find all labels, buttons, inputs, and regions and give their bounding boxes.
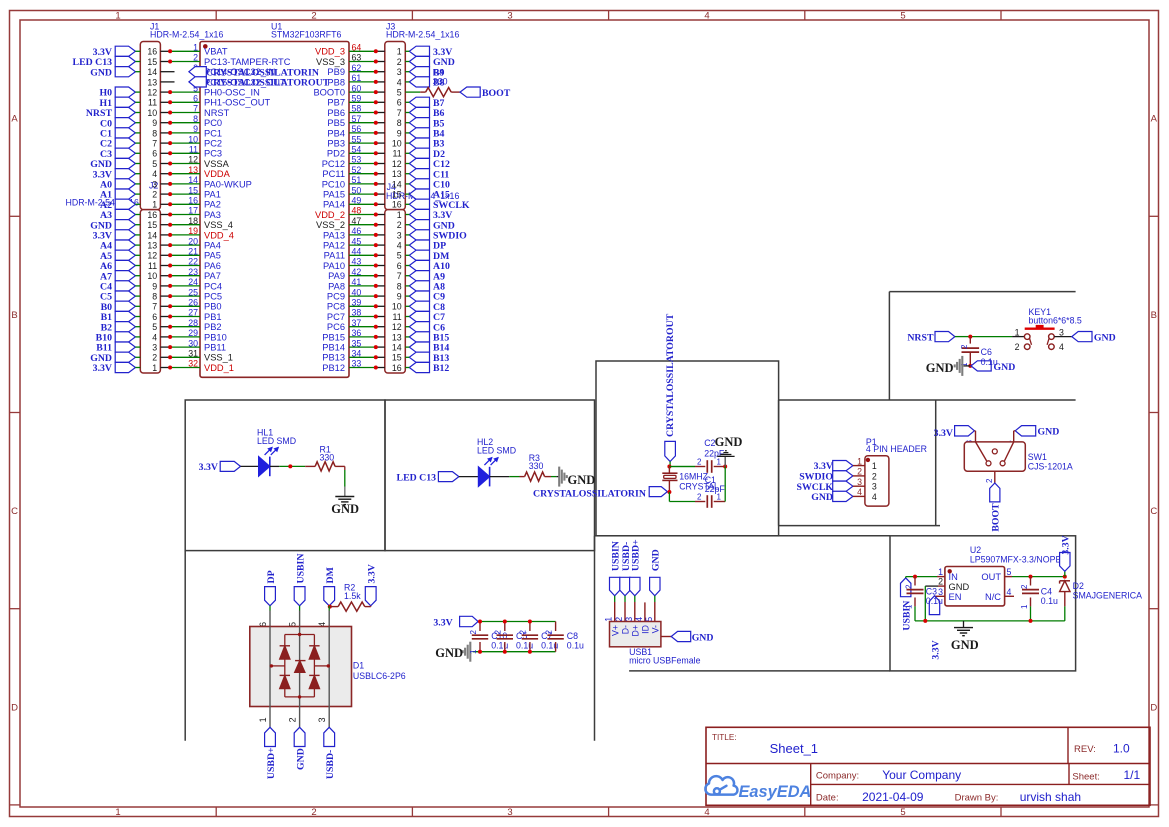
- svg-text:4 PIN HEADER: 4 PIN HEADER: [866, 444, 927, 454]
- svg-text:1.0: 1.0: [1113, 742, 1130, 756]
- svg-text:3: 3: [397, 67, 402, 77]
- svg-text:12: 12: [392, 159, 402, 169]
- svg-text:15: 15: [147, 57, 157, 67]
- wire J2 pin 9 to U1 pin 24 with junction: [160, 285, 170, 287]
- svg-text:2: 2: [152, 353, 157, 363]
- wire J2 pin 3 to U1 pin 30 with junction: [160, 346, 170, 348]
- node B junction: [667, 490, 671, 494]
- partition box HL2 area: [385, 400, 595, 551]
- wire U1 pin 39 to J4 pin 10 with junction: [349, 305, 376, 307]
- wire NRST to KEY1: [955, 336, 970, 338]
- svg-text:3: 3: [507, 10, 512, 21]
- svg-text:13: 13: [147, 77, 157, 87]
- svg-text:6: 6: [397, 261, 402, 271]
- svg-text:1: 1: [857, 456, 862, 466]
- wire 3.3V rail (top): [478, 621, 555, 623]
- svg-text:PA7: PA7: [204, 271, 221, 281]
- svg-text:5: 5: [152, 322, 157, 332]
- svg-text:1: 1: [1020, 604, 1029, 609]
- net flag B15 at J4 pin 13: [409, 332, 429, 342]
- svg-text:USBD+: USBD+: [266, 747, 277, 779]
- svg-text:PB0: PB0: [204, 302, 222, 312]
- D1 internal diodes: [269, 627, 271, 707]
- svg-text:3.3V: 3.3V: [93, 363, 112, 374]
- wire HL1 cathode to junction: [270, 465, 279, 467]
- svg-text:2: 2: [397, 57, 402, 67]
- svg-text:GND: GND: [715, 435, 743, 449]
- svg-text:V-: V-: [650, 625, 660, 633]
- LED HL1 LED SMD: [259, 457, 270, 477]
- svg-text:GND: GND: [811, 492, 833, 503]
- wire DP down to D1 pin 6: [269, 606, 271, 611]
- junction NRST-C6: [968, 335, 972, 339]
- svg-text:1: 1: [152, 363, 157, 373]
- ground (KEY1, gray): [964, 365, 971, 367]
- svg-text:PA14: PA14: [323, 200, 345, 210]
- svg-text:2: 2: [544, 629, 553, 634]
- svg-text:1: 1: [115, 807, 120, 818]
- wire 3.3V to SW1 pin 3: [974, 430, 975, 432]
- svg-text:Sheet_1: Sheet_1: [770, 741, 818, 756]
- net flag GND (KEY1 right): [1072, 332, 1092, 342]
- svg-text:12: 12: [147, 88, 157, 98]
- svg-text:GND: GND: [692, 632, 714, 643]
- svg-text:17: 17: [188, 206, 198, 216]
- svg-text:4: 4: [704, 807, 709, 818]
- net flag 3.3V (EN, vertical): [929, 596, 939, 615]
- svg-text:STM32F103RFT6: STM32F103RFT6: [271, 30, 342, 40]
- svg-text:LED C13: LED C13: [397, 472, 437, 483]
- svg-text:LP5907MFX-3.3/NOPB: LP5907MFX-3.3/NOPB: [970, 555, 1062, 565]
- svg-text:16: 16: [147, 47, 157, 57]
- svg-text:29: 29: [188, 328, 198, 338]
- wire J1 pin 10 to U1 pin 7 with junction: [160, 112, 170, 114]
- svg-text:PA0-WKUP: PA0-WKUP: [204, 179, 252, 189]
- wire J1 pin 16 to U1 pin 1 with junction: [160, 50, 170, 52]
- svg-text:9: 9: [397, 292, 402, 302]
- svg-text:PA1: PA1: [204, 190, 221, 200]
- svg-text:VSS_1: VSS_1: [204, 353, 233, 363]
- net flag C7 at J4 pin 11: [409, 311, 429, 321]
- wire J2 pin 10 to U1 pin 23 with junction: [160, 275, 170, 277]
- junction C6-GND: [968, 364, 972, 368]
- svg-text:12: 12: [147, 251, 157, 261]
- svg-text:SMAJGENERICA: SMAJGENERICA: [1073, 591, 1143, 601]
- svg-text:2: 2: [494, 629, 503, 634]
- svg-text:6: 6: [193, 94, 198, 104]
- svg-text:C6: C6: [981, 347, 992, 357]
- svg-text:2: 2: [872, 471, 877, 481]
- wire U1 pin 56 to J3 pin 9 with junction: [349, 132, 376, 134]
- wire D1 pin 1 to USBD+: [269, 707, 271, 728]
- svg-text:GND: GND: [331, 502, 359, 516]
- svg-text:3: 3: [872, 482, 877, 492]
- svg-text:2: 2: [311, 10, 316, 21]
- svg-text:22pF: 22pF: [705, 484, 726, 494]
- net flag 3.3V at J3 pin 1: [409, 46, 429, 56]
- svg-text:10: 10: [392, 302, 402, 312]
- wire J1 pin 2 to U1 pin 15 with junction: [160, 193, 170, 195]
- svg-text:9: 9: [397, 128, 402, 138]
- svg-text:PC1: PC1: [204, 128, 222, 138]
- svg-text:GND: GND: [296, 748, 307, 770]
- net flag B5 at J3 pin 8: [409, 118, 429, 128]
- wire U1 pin 55 to J3 pin 10 with junction: [349, 142, 376, 144]
- svg-text:3.3V: 3.3V: [367, 564, 378, 583]
- wire U1 pin 53 to J3 pin 12 with junction: [349, 163, 376, 165]
- net flag GND (SW1): [1015, 426, 1035, 436]
- svg-text:GND: GND: [568, 473, 596, 487]
- svg-text:3: 3: [1059, 327, 1064, 337]
- wire J2 pin 13 to U1 pin 20 with junction: [160, 244, 170, 246]
- svg-text:2: 2: [519, 629, 528, 634]
- svg-text:2: 2: [938, 577, 943, 587]
- wire U1 pin 54 to J3 pin 11 with junction: [349, 152, 376, 154]
- svg-text:DP: DP: [266, 570, 277, 583]
- svg-text:PA5: PA5: [204, 251, 221, 261]
- svg-text:2: 2: [857, 467, 862, 477]
- wire U1 pin 59 to J3 pin 6 with junction: [349, 101, 376, 103]
- wire HL2 cathode to R3: [490, 476, 510, 478]
- net flag BOOT (vertical): [990, 483, 1000, 502]
- connector J1 HDR-M-2.54_1x16: [140, 42, 160, 210]
- svg-text:13: 13: [147, 241, 157, 251]
- wire U1 pin 52 to J3 pin 13 with junction: [349, 173, 376, 175]
- wire J2 pin 7 to U1 pin 26 with junction: [160, 305, 170, 307]
- svg-text:25: 25: [188, 287, 198, 297]
- svg-text:16: 16: [392, 363, 402, 373]
- svg-text:PH0-OSC_IN: PH0-OSC_IN: [204, 88, 260, 98]
- svg-text:13: 13: [392, 332, 402, 342]
- capacitor C10 0.1u: [479, 622, 481, 632]
- svg-text:B: B: [1151, 310, 1157, 321]
- svg-text:PA12: PA12: [323, 241, 345, 251]
- net flag C9 at J4 pin 9: [409, 291, 429, 301]
- svg-text:PC10: PC10: [322, 179, 345, 189]
- svg-text:Your Company: Your Company: [882, 768, 961, 782]
- svg-text:PA3: PA3: [204, 210, 221, 220]
- svg-text:PA13: PA13: [323, 230, 345, 240]
- svg-text:VBAT: VBAT: [204, 47, 228, 57]
- svg-text:C4: C4: [1041, 586, 1052, 596]
- wire J2 pin 14 to U1 pin 19 with junction: [160, 234, 170, 236]
- svg-text:Company:: Company:: [816, 771, 859, 782]
- svg-text:PC0: PC0: [204, 118, 222, 128]
- capacitor C8 0.1u: [555, 622, 557, 632]
- net flag GND at J3 pin 2: [409, 56, 429, 66]
- svg-text:GND: GND: [926, 361, 954, 375]
- svg-text:4: 4: [397, 241, 402, 251]
- wire stub J1 pin 13 (unconnected): [160, 81, 174, 83]
- junction D2 top: [1063, 575, 1067, 579]
- net flag 3.3V (U2 out, vertical): [1060, 553, 1070, 572]
- wire U2 OUT to 3.3V rail: [1005, 576, 1012, 578]
- connector J4 HDR-M-2.54_1x16: [385, 210, 406, 373]
- svg-text:USBD-: USBD-: [325, 750, 336, 779]
- wire U1 pin 45 to J4 pin 4 with junction: [349, 244, 376, 246]
- svg-text:PB12: PB12: [322, 363, 345, 373]
- svg-text:7: 7: [193, 104, 198, 114]
- wire U1 pin 40 to J4 pin 9 with junction: [349, 295, 376, 297]
- wire USBIN to U2 IN: [905, 577, 907, 578]
- wire U1 pin 49 to J3 pin 16 with junction: [349, 203, 376, 205]
- partition line bottom-left vertical: [184, 551, 186, 741]
- svg-text:CRYSTALOSSILATOROUT: CRYSTALOSSILATOROUT: [665, 313, 676, 437]
- svg-text:8: 8: [152, 292, 157, 302]
- wire U1 pin 48 to J4 pin 1 with junction: [349, 214, 376, 216]
- svg-text:PC7: PC7: [327, 312, 345, 322]
- svg-text:USBLC6-2P6: USBLC6-2P6: [353, 671, 406, 681]
- wire LED C13 to HL2 anode: [459, 476, 479, 478]
- svg-text:PB5: PB5: [327, 118, 345, 128]
- svg-text:2: 2: [311, 807, 316, 818]
- svg-text:12: 12: [188, 155, 198, 165]
- net flag A8 at J4 pin 8: [409, 281, 429, 291]
- svg-text:1: 1: [904, 604, 913, 609]
- svg-text:2: 2: [697, 457, 702, 466]
- svg-text:PC2: PC2: [204, 139, 222, 149]
- svg-text:D1: D1: [353, 660, 364, 670]
- svg-text:2: 2: [960, 344, 969, 349]
- svg-text:14: 14: [147, 230, 157, 240]
- wire J1 pin 9 to U1 pin 8 with junction: [160, 122, 170, 124]
- svg-text:4: 4: [704, 10, 709, 21]
- diode array D1 USBLC6-2P6: [250, 627, 352, 707]
- svg-text:5: 5: [900, 807, 905, 818]
- wire R3 to ground: [551, 476, 556, 478]
- wire DM down to D1 pin 4: [328, 606, 330, 611]
- svg-text:330: 330: [433, 76, 448, 86]
- capacitor C5 0.1u: [504, 622, 506, 632]
- net flag 3.3V at J4 pin 1: [409, 209, 429, 219]
- svg-text:U2: U2: [970, 545, 981, 555]
- svg-text:2: 2: [1020, 584, 1029, 589]
- svg-text:20: 20: [188, 236, 198, 246]
- svg-text:8: 8: [152, 128, 157, 138]
- net flag B9 at J3 pin 3: [409, 67, 429, 77]
- svg-text:2: 2: [697, 492, 702, 501]
- svg-text:0.1u: 0.1u: [516, 641, 533, 651]
- net flag DM at J4 pin 5: [409, 250, 429, 260]
- connector USB1 micro USBFemale: [610, 622, 661, 647]
- svg-text:PC13-TAMPER-RTC: PC13-TAMPER-RTC: [204, 57, 291, 67]
- svg-text:PB9: PB9: [327, 67, 345, 77]
- junction C3 top: [913, 575, 917, 579]
- svg-text:7: 7: [152, 302, 157, 312]
- svg-text:GND: GND: [90, 67, 112, 78]
- svg-text:N/C: N/C: [985, 592, 1001, 602]
- svg-text:NRST: NRST: [907, 332, 934, 343]
- svg-text:13: 13: [392, 169, 402, 179]
- svg-text:2: 2: [288, 717, 298, 722]
- svg-text:GND: GND: [435, 646, 463, 660]
- op-amp U1 STM32F103RFT6 body: [200, 42, 349, 378]
- svg-text:PC11: PC11: [322, 169, 345, 179]
- svg-text:LED SMD: LED SMD: [257, 436, 296, 446]
- U1 pin 1 marker dot: [203, 44, 208, 49]
- wire U1 pin 51 to J3 pin 14 with junction: [349, 183, 376, 185]
- wire U1 pin 36 to J4 pin 13 with junction: [349, 336, 376, 338]
- svg-text:USBIN: USBIN: [296, 554, 307, 584]
- wire U2 GND pin to rail: [938, 585, 945, 587]
- svg-text:DM: DM: [325, 567, 336, 583]
- net flag A15 at J3 pin 15: [409, 189, 429, 199]
- svg-text:OUT: OUT: [981, 572, 1001, 582]
- wire J1 pin 4 to U1 pin 13 with junction: [160, 173, 170, 175]
- svg-text:10: 10: [392, 139, 402, 149]
- svg-text:PC9: PC9: [327, 292, 345, 302]
- svg-text:VSS_4: VSS_4: [204, 220, 233, 230]
- wire U1 pin 35 to J4 pin 14 with junction: [349, 346, 376, 348]
- wire stub J1 pin 14 (unconnected): [160, 71, 174, 73]
- junction right top: [723, 465, 727, 469]
- svg-text:2: 2: [152, 190, 157, 200]
- net flag B8 at J3 pin 4: [409, 77, 429, 87]
- svg-text:1: 1: [115, 10, 120, 21]
- svg-text:14: 14: [147, 67, 157, 77]
- net flag B7 at J3 pin 6: [409, 97, 429, 107]
- svg-text:10: 10: [188, 134, 198, 144]
- svg-text:8: 8: [397, 118, 402, 128]
- connector J2 HDR-M-2.54_1x16: [140, 210, 160, 373]
- svg-text:HDR-M-2.54_1x16: HDR-M-2.54_1x16: [386, 30, 459, 40]
- svg-text:3.3V: 3.3V: [1061, 535, 1072, 554]
- svg-text:4: 4: [857, 487, 862, 497]
- svg-text:IN: IN: [949, 572, 958, 582]
- svg-text:26: 26: [188, 298, 198, 308]
- svg-text:1: 1: [938, 567, 943, 577]
- wire U1 pin 60 to J3 pin 5 with junction: [349, 91, 376, 93]
- wire J1 pin 12 to U1 pin 5 with junction: [160, 91, 170, 93]
- net flag B6 at J3 pin 7: [409, 107, 429, 117]
- resistor R1 330: [305, 465, 315, 467]
- svg-text:330: 330: [529, 461, 544, 471]
- title block: [706, 727, 1150, 805]
- net flag A9 at J4 pin 7: [409, 271, 429, 281]
- wire D2 up to 3.3V flag: [1064, 571, 1066, 576]
- partition box HL1 area: [185, 400, 385, 551]
- net flag USBD- (vertical): [324, 727, 335, 746]
- wire U1 pin 41 to J4 pin 8 with junction: [349, 285, 376, 287]
- wire J2 pin 1 to U1 pin 32 with junction: [160, 367, 170, 369]
- capacitor C4 0.1u: [1030, 577, 1032, 586]
- svg-text:PB7: PB7: [327, 98, 345, 108]
- wire U1 pin 58 to J3 pin 7 with junction: [349, 112, 376, 114]
- svg-text:11: 11: [393, 312, 402, 322]
- svg-text:2: 2: [469, 629, 478, 634]
- wire J1 pin 8 to U1 pin 9 with junction: [160, 132, 170, 134]
- svg-text:Drawn By:: Drawn By:: [955, 792, 999, 803]
- wire U1 pin 38 to J4 pin 11 with junction: [349, 316, 376, 318]
- svg-text:HDR-M-2.54_1x16: HDR-M-2.54_1x16: [150, 30, 223, 40]
- svg-text:3: 3: [857, 477, 862, 487]
- svg-text:VSS_3: VSS_3: [316, 57, 345, 67]
- svg-text:PH1-OSC_OUT: PH1-OSC_OUT: [204, 98, 270, 108]
- svg-text:5: 5: [397, 251, 402, 261]
- svg-text:1: 1: [397, 47, 402, 57]
- svg-text:4: 4: [152, 169, 157, 179]
- svg-text:0.1u: 0.1u: [981, 357, 998, 367]
- svg-text:9: 9: [193, 124, 198, 134]
- svg-text:VDD_2: VDD_2: [315, 210, 345, 220]
- diode D2 SMAJGENERICA: [1060, 580, 1070, 582]
- net flag B4 at J3 pin 9: [409, 128, 429, 138]
- svg-text:B: B: [11, 310, 17, 321]
- wire U1 pin 47 to J4 pin 2 with junction: [349, 224, 376, 226]
- svg-text:urvish shah: urvish shah: [1020, 790, 1081, 804]
- wire U1 pin 57 to J3 pin 8 with junction: [349, 122, 376, 124]
- connector J3 HDR-M-2.54_1x16: [385, 42, 406, 210]
- capacitor C2 22pF: [669, 466, 695, 468]
- svg-text:D: D: [1150, 702, 1157, 713]
- net flag C12 at J3 pin 12: [409, 158, 429, 168]
- capacitor C6 0.1u: [969, 337, 971, 344]
- wire J2 pin 8 to U1 pin 25 with junction: [160, 295, 170, 297]
- svg-text:1: 1: [193, 43, 198, 53]
- svg-text:EN: EN: [949, 592, 962, 602]
- wire U1 pin 42 to J4 pin 7 with junction: [349, 275, 376, 277]
- svg-text:TITLE:: TITLE:: [712, 733, 737, 742]
- svg-text:14: 14: [392, 179, 402, 189]
- wire J2 pin 5 to U1 pin 28 with junction: [160, 326, 170, 328]
- svg-text:1: 1: [258, 717, 268, 722]
- svg-text:Date:: Date:: [816, 792, 839, 803]
- svg-text:8: 8: [397, 281, 402, 291]
- svg-text:3: 3: [152, 343, 157, 353]
- svg-text:D+: D+: [630, 625, 640, 637]
- node A junction: [667, 465, 671, 469]
- svg-text:27: 27: [188, 308, 198, 318]
- svg-text:13: 13: [188, 165, 198, 175]
- svg-text:0.1u: 0.1u: [491, 641, 508, 651]
- partition line bottom-middle vertical: [594, 536, 596, 741]
- svg-text:PA10: PA10: [323, 261, 345, 271]
- connector P1 4 PIN HEADER: [865, 456, 889, 506]
- capacitor C7 0.1u: [529, 622, 531, 632]
- svg-text:2: 2: [904, 584, 913, 589]
- svg-text:31: 31: [188, 349, 198, 359]
- svg-text:18: 18: [188, 216, 198, 226]
- svg-text:5: 5: [397, 88, 402, 98]
- wire USB1 pin 5: [654, 596, 656, 602]
- svg-text:3.3V: 3.3V: [934, 428, 953, 439]
- svg-text:14: 14: [188, 175, 198, 185]
- svg-text:3.3V: 3.3V: [433, 618, 452, 629]
- ground (crystal): [724, 457, 726, 467]
- svg-text:11: 11: [148, 261, 157, 271]
- svg-text:7: 7: [397, 271, 402, 281]
- svg-text:4: 4: [397, 77, 402, 87]
- svg-text:10: 10: [147, 108, 157, 118]
- svg-text:PC4: PC4: [204, 281, 222, 291]
- svg-text:1: 1: [469, 649, 478, 654]
- wire J2 pin 15 to U1 pin 18 with junction: [160, 224, 170, 226]
- svg-text:button6*6*8.5: button6*6*8.5: [1029, 316, 1082, 326]
- net flag GND (D1, vertical): [294, 727, 305, 746]
- svg-text:3: 3: [152, 179, 157, 189]
- svg-text:PB3: PB3: [327, 139, 345, 149]
- svg-text:GND: GND: [1094, 332, 1116, 343]
- svg-text:30: 30: [188, 338, 198, 348]
- svg-text:BOOT: BOOT: [482, 88, 511, 99]
- svg-text:PA4: PA4: [204, 241, 221, 251]
- partition line USB area bottom: [629, 670, 890, 672]
- svg-text:PA8: PA8: [328, 281, 345, 291]
- svg-text:C: C: [11, 506, 18, 517]
- wire P1 pin 4: [853, 495, 865, 497]
- svg-text:ID: ID: [641, 625, 651, 634]
- svg-text:VDDA: VDDA: [204, 169, 231, 179]
